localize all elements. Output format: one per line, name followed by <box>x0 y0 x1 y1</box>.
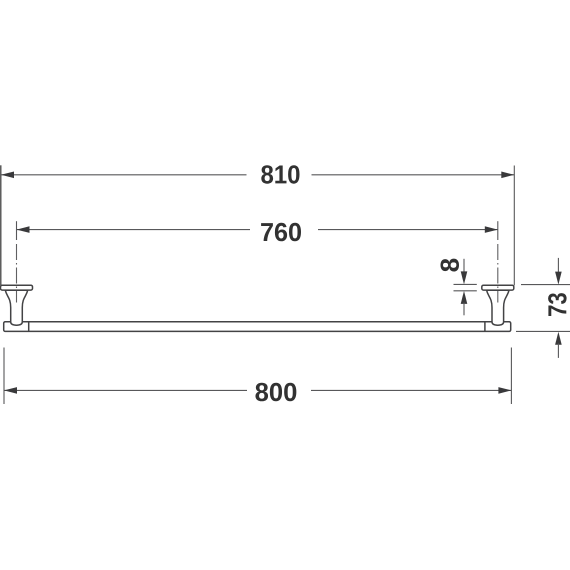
dimension line 800 right segment <box>311 389 511 391</box>
extension line bar-bottom right <box>516 330 570 332</box>
dim 8 upper line <box>463 259 465 274</box>
right post stem <box>487 290 509 325</box>
centerline right post <box>497 244 499 303</box>
dimension line 810 right segment <box>312 174 515 176</box>
extension line 810 left <box>0 165 2 285</box>
label 73 <box>548 293 567 316</box>
dim 8 lower line <box>463 303 465 316</box>
arrowhead 73 up <box>555 332 562 345</box>
extension line 800 left <box>3 348 5 405</box>
extension line 800 right <box>510 348 512 405</box>
arrowhead 760 left <box>17 226 30 233</box>
right post cap <box>482 285 514 290</box>
arrowhead 810 right <box>501 172 514 179</box>
dimension line 760 left segment <box>17 229 251 231</box>
bar (towel rail) <box>4 322 511 332</box>
seam right <box>484 322 486 331</box>
extension line 760 right <box>497 221 499 240</box>
dimension line 760 right segment <box>318 229 498 231</box>
arrowhead 800 right <box>498 387 511 394</box>
arrowhead 73 down <box>555 272 562 285</box>
extension line cap-top left of right post <box>454 283 477 285</box>
left post cap <box>1 285 33 290</box>
dimension line 810 left segment <box>1 174 247 176</box>
extension line 760 left <box>16 221 18 240</box>
dim 73 lower line <box>557 344 559 358</box>
extension line 810 right <box>513 166 515 286</box>
label 760 <box>261 223 301 242</box>
centerline left post <box>16 244 18 303</box>
arrowhead 760 right <box>485 226 498 233</box>
extension line cap-top right of right post <box>521 284 570 286</box>
dimension line 800 left segment <box>4 389 247 391</box>
arrowhead 810 left <box>1 172 14 179</box>
left post stem <box>5 290 27 325</box>
seam left <box>28 322 30 331</box>
label 8 <box>441 259 460 272</box>
label 810 <box>261 165 299 184</box>
dim 73 upper line <box>557 258 559 274</box>
extension line cap-bottom left of right post <box>454 290 477 292</box>
arrowhead 8 down <box>461 271 468 284</box>
arrowhead 800 left <box>4 387 17 394</box>
arrowhead 8 up <box>461 291 468 304</box>
label 800 <box>255 383 296 402</box>
